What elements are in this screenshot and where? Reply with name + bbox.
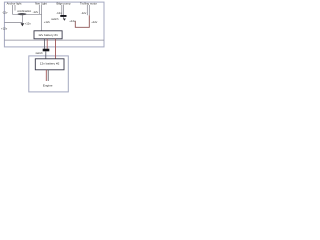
svg-text:Nav Light: Nav Light bbox=[35, 2, 47, 6]
svg-text:Bilge pump: Bilge pump bbox=[57, 2, 71, 6]
svg-text:+12v: +12v bbox=[69, 19, 76, 23]
svg-text:+12v: +12v bbox=[1, 27, 8, 31]
svg-text:+12v: +12v bbox=[25, 22, 32, 26]
svg-text:12v battery #2: 12v battery #2 bbox=[40, 61, 60, 65]
svg-text:Engine: Engine bbox=[43, 84, 53, 88]
svg-text:-12v: -12v bbox=[33, 10, 39, 14]
svg-text:-12v: -12v bbox=[81, 11, 87, 15]
svg-text:switch: switch bbox=[36, 51, 44, 55]
svg-text:-12v: -12v bbox=[2, 11, 8, 15]
svg-text:-12v: -12v bbox=[56, 11, 62, 15]
svg-text:switch: switch bbox=[51, 17, 59, 21]
svg-text:Trolling motor: Trolling motor bbox=[80, 2, 97, 6]
svg-text:combination: combination bbox=[17, 9, 32, 13]
svg-text:+12v: +12v bbox=[44, 20, 51, 24]
svg-text:12v battery #1: 12v battery #1 bbox=[38, 33, 58, 37]
svg-text:Anchor light: Anchor light bbox=[7, 2, 22, 6]
svg-text:+12v: +12v bbox=[91, 20, 98, 24]
